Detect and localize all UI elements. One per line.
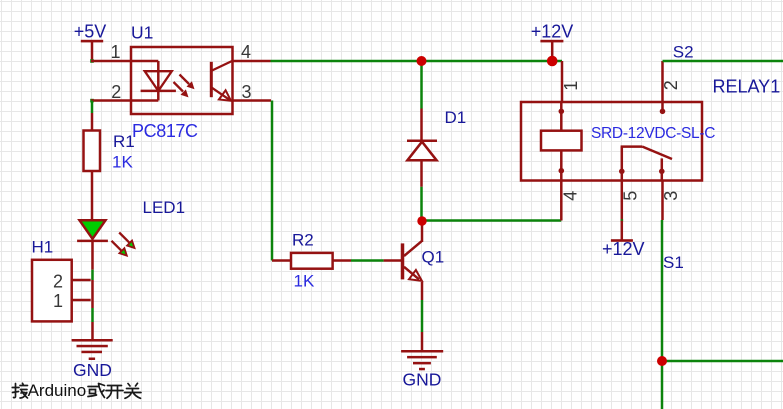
svg-text:2: 2 bbox=[53, 271, 63, 291]
power +12V top bbox=[531, 21, 574, 61]
svg-text:3: 3 bbox=[661, 191, 681, 201]
note text: 接Arduino或开关 bbox=[12, 381, 141, 400]
power +5V bbox=[74, 22, 107, 62]
LED LED1 bbox=[77, 220, 134, 255]
wire collector node to relay pin 4 bbox=[422, 219, 561, 222]
relay RELAY1 body bbox=[521, 102, 702, 181]
svg-text:LED1: LED1 bbox=[143, 198, 186, 217]
svg-text:3: 3 bbox=[242, 82, 252, 102]
svg-text:SRD-12VDC-SL-C: SRD-12VDC-SL-C bbox=[591, 125, 715, 142]
svg-text:PC817C: PC817C bbox=[132, 121, 198, 141]
relay coil bbox=[541, 102, 582, 181]
svg-text:+12V: +12V bbox=[531, 21, 574, 41]
svg-text:1: 1 bbox=[561, 81, 581, 91]
svg-text:GND: GND bbox=[403, 370, 442, 390]
svg-text:1: 1 bbox=[111, 42, 121, 62]
relay pin 2 bbox=[661, 61, 664, 102]
relay pin 3 number bbox=[661, 191, 681, 201]
ground GND under Q1 bbox=[401, 350, 443, 370]
wire H1 pin 1 node to ground bbox=[91, 308, 94, 340]
svg-text:2: 2 bbox=[111, 82, 121, 102]
svg-text:2: 2 bbox=[661, 80, 681, 90]
relay pin 2 number bbox=[661, 80, 681, 90]
resistor R2 bbox=[291, 253, 333, 269]
svg-text:Q1: Q1 bbox=[422, 248, 445, 267]
relay pin 5 number bbox=[620, 191, 640, 201]
wire U1 pin 3 to R2 bbox=[233, 101, 292, 261]
svg-text:U1: U1 bbox=[131, 23, 153, 43]
power +12V bottom on relay pin 5 bbox=[602, 219, 645, 259]
relay pin 1 number bbox=[561, 81, 581, 91]
svg-text:1: 1 bbox=[53, 291, 63, 311]
wire H1 pin 2 node to pin 1 node bbox=[91, 280, 94, 308]
wire LED1 to H1 pin 2 node bbox=[91, 241, 94, 280]
wire net S2 bbox=[663, 60, 783, 63]
svg-text:+12V: +12V bbox=[602, 239, 645, 259]
svg-text:S2: S2 bbox=[673, 42, 694, 61]
relay pin 4 number bbox=[560, 191, 580, 201]
optocoupler U1 bbox=[131, 47, 233, 114]
transistor Q1 bbox=[403, 225, 423, 300]
wire +12V rail to D1 cathode bbox=[420, 61, 423, 109]
svg-text:1K: 1K bbox=[112, 153, 133, 172]
wire net S1 vertical bbox=[661, 220, 664, 409]
svg-text:R2: R2 bbox=[292, 231, 314, 250]
svg-text:D1: D1 bbox=[445, 108, 467, 127]
svg-text:GND: GND bbox=[73, 360, 112, 380]
svg-text:5: 5 bbox=[620, 191, 640, 201]
svg-text:4: 4 bbox=[241, 42, 251, 62]
wire D1 anode to collector node bbox=[420, 187, 423, 221]
relay pin 3 bbox=[661, 181, 664, 221]
svg-text:RELAY1: RELAY1 bbox=[713, 77, 781, 97]
wire U1 pin 4 to +12V rail bbox=[233, 60, 563, 63]
node junction on +12V rail at D1 bbox=[417, 56, 427, 66]
node junction at +12V stub bbox=[547, 56, 558, 67]
resistor R1 bbox=[84, 131, 101, 172]
svg-text:1K: 1K bbox=[294, 272, 315, 291]
relay pin 5 bbox=[621, 181, 624, 221]
wire +5V to U1 pin 1 bbox=[90, 59, 131, 63]
svg-text:S1: S1 bbox=[663, 253, 684, 272]
diode D1 bbox=[407, 109, 437, 187]
relay pin 1 bbox=[561, 61, 564, 102]
ground GND left bbox=[72, 339, 113, 360]
svg-text:Arduino: Arduino bbox=[28, 381, 87, 400]
relay pin 4 bbox=[560, 181, 563, 221]
wire U1 pin 2 to R1 bbox=[90, 99, 131, 131]
svg-text:4: 4 bbox=[560, 191, 580, 201]
svg-text:H1: H1 bbox=[32, 238, 54, 257]
node junction at Q1 collector bbox=[417, 216, 426, 225]
svg-text:+5V: +5V bbox=[74, 22, 107, 42]
connector H1 bbox=[32, 260, 91, 322]
wire R2 to Q1 base bbox=[333, 259, 402, 262]
relay switch contacts bbox=[619, 102, 672, 181]
wire Q1 emitter to ground bbox=[421, 300, 424, 351]
svg-text:R1: R1 bbox=[113, 132, 135, 151]
node junction on S1 bbox=[657, 356, 667, 366]
wire R1 to LED1 bbox=[91, 171, 94, 220]
wire net S1 branch right bbox=[662, 360, 783, 363]
